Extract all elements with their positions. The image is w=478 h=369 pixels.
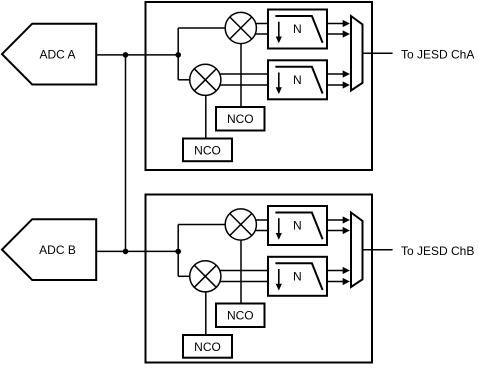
wire: ADC B output to splitter junction: [96, 250, 178, 252]
wire: branch to mixer 2 (B): [178, 275, 191, 277]
wire: vertical branch to both mixers (A): [177, 28, 179, 80]
junction dot at mixer splitter (A): [175, 52, 181, 58]
decimation filter 1 (down-sample by N, low-pass) (B): [268, 206, 327, 245]
wire: mux output to JESD (A): [363, 52, 393, 54]
NCO 1 box (A): [216, 107, 265, 131]
svg-text:NCO: NCO: [194, 340, 221, 354]
svg-text:N: N: [293, 219, 302, 233]
mixer 2 (A): [190, 64, 221, 95]
svg-text:N: N: [293, 73, 302, 87]
DDC block A outline: [146, 2, 373, 170]
decimation filter 1 (down-sample by N, low-pass) (A): [268, 10, 327, 49]
wire: mixer 1 I/Q outputs to decimation filter 1 (B): [241, 220, 268, 231]
wire: mux output to JESD (B): [363, 249, 393, 251]
svg-text:N: N: [293, 269, 302, 283]
output mux (A): [351, 16, 363, 91]
junction dot on ADC B wire (crossbar tap): [123, 249, 129, 255]
NCO 1 box (B): [216, 304, 265, 328]
svg-text:To JESD ChA: To JESD ChA: [401, 48, 474, 62]
wires with arrowheads: filter outputs into output mux (B): [327, 216, 350, 285]
decimation filter 2 (down-sample by N, low-pass) (A): [268, 60, 327, 99]
svg-text:NCO: NCO: [227, 309, 254, 323]
mixer 1 (B): [225, 209, 256, 240]
NCO 2 box (A): [183, 139, 232, 162]
wires with arrowheads: filter outputs into output mux (A): [327, 20, 350, 89]
junction dot on ADC A wire (crossbar tap): [123, 52, 129, 58]
wire: vertical branch to both mixers (B): [177, 225, 179, 277]
svg-text:To JESD ChB: To JESD ChB: [401, 244, 474, 258]
svg-text:NCO: NCO: [227, 112, 254, 126]
wire: vertical crossbar link between ADC A and ADC B wires: [125, 55, 127, 252]
wire: branch to mixer 1 (B): [178, 224, 226, 226]
wire: mixer 1 to NCO 1 (A): [240, 28, 242, 107]
svg-text:ADC B: ADC B: [39, 243, 76, 257]
wire: mixer 2 to NCO 2 (A): [205, 80, 207, 139]
wire: mixer 2 I/Q outputs to decimation filter 2 (B): [205, 271, 268, 282]
ADC A input block arrow: [2, 24, 96, 85]
decimation filter 2 (down-sample by N, low-pass) (B): [268, 257, 327, 296]
DDC block B outline: [146, 195, 373, 363]
mixer 2 (B): [190, 261, 221, 292]
wire: mixer 1 to NCO 1 (B): [240, 225, 242, 304]
wire: mixer 2 I/Q outputs to decimation filter 2 (A): [205, 74, 268, 85]
output mux (B): [351, 213, 363, 288]
ADC B input block arrow: [2, 219, 96, 280]
svg-text:ADC A: ADC A: [39, 47, 75, 61]
wire: mixer 1 I/Q outputs to decimation filter 1 (A): [241, 24, 268, 35]
mixer 1 (A): [225, 12, 256, 43]
wire: branch to mixer 2 (A): [178, 79, 191, 81]
junction dot at mixer splitter (B): [175, 249, 181, 255]
svg-text:N: N: [293, 22, 302, 36]
wire: branch to mixer 1 (A): [178, 27, 226, 29]
wire: mixer 2 to NCO 2 (B): [205, 276, 207, 335]
NCO 2 box (B): [183, 335, 232, 358]
svg-text:NCO: NCO: [194, 144, 221, 158]
wire: ADC A output to splitter junction: [96, 54, 178, 56]
